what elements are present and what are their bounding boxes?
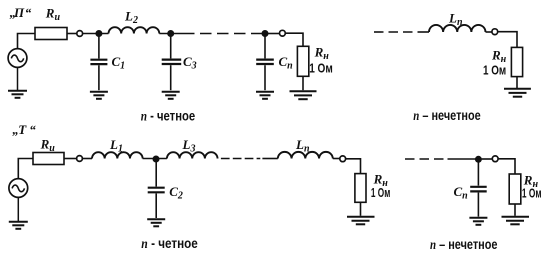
AC source G1 [8, 49, 27, 68]
wire load to ground [360, 202, 362, 216]
svg-text:„П“: „П“ [10, 5, 32, 20]
dashed wire (bottom-right) [405, 158, 444, 160]
junction E (dot) [475, 156, 482, 163]
ground under Cn [469, 218, 487, 225]
open node circle [492, 29, 498, 35]
capacitor Cn (top) [256, 36, 274, 90]
svg-text:Rи: Rи [45, 6, 61, 24]
svg-text:1 Ом: 1 Ом [522, 186, 542, 201]
junction A (dot) [95, 30, 102, 37]
svg-text:1 Ом: 1 Ом [371, 185, 390, 200]
svg-text:п - четное: п - четное [141, 107, 196, 124]
inductor Ln (top-right) [429, 25, 485, 32]
ground under Rн (bottom-left) [347, 217, 375, 225]
ground under C3 [162, 92, 180, 99]
wire inductor to node [486, 31, 492, 33]
wire L2 to dashed [159, 33, 194, 35]
resistor Rн (load, top-left circuit) [297, 46, 308, 76]
open node circle right [280, 30, 286, 36]
dashed wire [200, 33, 263, 35]
wire resistor to node [64, 158, 77, 160]
svg-text:L2: L2 [124, 9, 138, 27]
svg-text:C1: C1 [112, 54, 126, 72]
wire to inductor [418, 31, 430, 33]
capacitor Cn (bottom) [470, 161, 487, 217]
svg-text:Rи: Rи [40, 137, 56, 155]
wire source to resistor [18, 159, 33, 179]
capacitor C1 [90, 36, 107, 90]
ground under C1 [90, 92, 108, 99]
inductor L2 [109, 27, 160, 33]
svg-text:„T“: „T“ [12, 122, 36, 137]
dashed wire (top-right) [374, 31, 416, 33]
wire junction C to node [265, 33, 280, 35]
wire Ln to node [333, 158, 340, 160]
open node circle [77, 156, 83, 162]
svg-text:п - четное: п - четное [141, 235, 198, 252]
svg-text:L3: L3 [182, 137, 196, 155]
wire node to load [498, 32, 517, 48]
junction B (dot) [167, 30, 174, 37]
wire node to load [346, 159, 361, 174]
wire dashed to junction [448, 158, 479, 160]
dashed wire (bottom-left) [221, 158, 260, 160]
ground under C2 [147, 219, 165, 226]
svg-text:Lп: Lп [448, 10, 463, 28]
resistor Rн (top-right) [511, 47, 522, 76]
junction C (dot) [262, 30, 269, 37]
wire node to load [498, 159, 515, 174]
svg-text:1 Ом: 1 Ом [309, 60, 333, 75]
wire L1 to L3 [143, 158, 167, 160]
svg-text:L1: L1 [109, 137, 123, 155]
resistor Rи (bottom) [33, 153, 64, 165]
open node circle [77, 31, 83, 37]
ground under Rн (bottom-right) [502, 217, 530, 225]
svg-text:C3: C3 [183, 54, 197, 72]
svg-text:Rн: Rн [314, 44, 330, 62]
open node circle [492, 156, 498, 162]
ground under Rн (top-right) [504, 89, 531, 97]
capacitor C2 [148, 161, 165, 218]
svg-text:1 Ом: 1 Ом [483, 63, 506, 78]
wire load to ground [516, 77, 518, 88]
inductor L3 [167, 152, 218, 158]
inductor L1 [92, 152, 143, 158]
resistor Rн (bottom-right) [509, 174, 521, 204]
junction D (dot) [153, 156, 160, 163]
wire load to ground [302, 76, 304, 90]
wire node to load [285, 33, 303, 46]
wire load to ground [514, 204, 516, 216]
resistor Rи (source resistance) [35, 28, 67, 40]
ground under Cn [256, 92, 274, 99]
ground under Rн [290, 91, 317, 99]
svg-text:п – нечетное: п – нечетное [413, 107, 481, 124]
svg-text:Cп: Cп [454, 184, 469, 202]
svg-text:C2: C2 [169, 184, 183, 202]
capacitor C3 [162, 36, 182, 90]
wire junction to node [482, 158, 493, 160]
AC source G2 [9, 179, 28, 198]
wire node to junction A [83, 33, 109, 35]
svg-text:Cп: Cп [279, 54, 294, 72]
wire dashed to Ln [262, 158, 277, 160]
ground under G1 [8, 67, 27, 98]
resistor Rн (bottom-left) [355, 174, 366, 203]
wire source to resistor [18, 34, 36, 49]
svg-text:п – нечетное: п – нечетное [430, 236, 498, 253]
inductor Ln (bottom) [278, 152, 333, 159]
svg-text:Lп: Lп [295, 137, 310, 155]
wire resistor to node [67, 33, 77, 35]
ground under G2 [9, 197, 28, 229]
open node circle [340, 156, 346, 162]
wire node to L1 [82, 158, 92, 160]
